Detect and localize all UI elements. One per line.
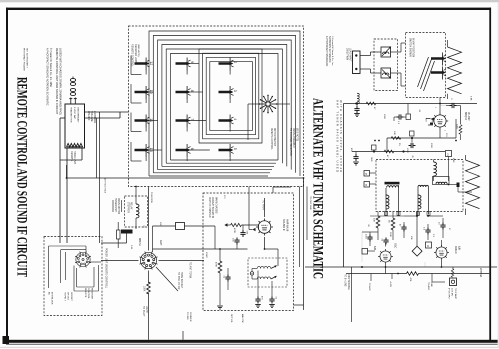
svg-text:AC: AC [48, 292, 51, 295]
antenna switch dashed box [406, 33, 446, 98]
svg-text:© Howard W. Sams & Co., Inc.: © Howard W. Sams & Co., Inc. [331, 36, 334, 66]
svg-text:LEAD INPUT: LEAD INPUT [349, 48, 352, 62]
relay coil [136, 196, 139, 229]
capacitor C7 [381, 238, 389, 245]
svg-text:STEPPER: STEPPER [127, 202, 129, 213]
wire stubs below rail2 [371, 262, 425, 281]
svg-text:(SEE NOTE): (SEE NOTE) [137, 44, 139, 57]
wire antenna to balun [360, 52, 381, 73]
svg-text:6: 6 [190, 148, 194, 150]
page top gray scan edge [0, 0, 499, 2]
svg-text:VOLUME: VOLUME [90, 111, 93, 122]
wire IF input line [153, 237, 279, 249]
svg-text:47K: 47K [159, 222, 161, 226]
svg-text:TO PILOT: TO PILOT [142, 306, 144, 317]
label V3 type [464, 112, 470, 121]
border frame right line [489, 8, 491, 342]
wire transmitter bottom leads [60, 148, 82, 243]
svg-text:2.2K: 2.2K [130, 245, 132, 250]
resistor R6 vertical [388, 212, 395, 241]
pin circle 7 [250, 272, 253, 275]
svg-text:8: 8 [190, 90, 194, 92]
ground G1 [217, 306, 223, 309]
svg-text:SET VOL: SET VOL [230, 314, 232, 324]
remote receiver dashed enclosure [129, 26, 304, 187]
svg-text:6J6: 6J6 [373, 246, 376, 251]
svg-text:ON-OFF: ON-OFF [87, 111, 90, 121]
svg-text:3: 3 [233, 90, 237, 92]
svg-text:REMOTE: REMOTE [84, 288, 86, 298]
tuning coil L12 [135, 58, 154, 75]
transducer leads [69, 98, 77, 105]
svg-text:7: 7 [190, 118, 194, 120]
label transmitter unit [70, 151, 76, 165]
svg-text:REMOTE CONTROL AND SOUND IF CI: REMOTE CONTROL AND SOUND IF CIRCUIT [13, 77, 29, 277]
capacitor C18 plate [446, 98, 461, 108]
label V3 pins [434, 107, 445, 132]
RF coil L6 winding [418, 195, 421, 209]
svg-text:SOCKET: SOCKET [70, 292, 72, 302]
wire socket connections [49, 246, 102, 291]
svg-text:23.5 MC: 23.5 MC [451, 288, 453, 297]
mixer zigzag coil L10 [466, 155, 480, 215]
label V1 [138, 238, 162, 246]
resistor R21 [224, 223, 258, 233]
label inside transmitter [70, 107, 80, 123]
power unit dashed enclosure [44, 237, 102, 316]
wire nested loops bottom returns [149, 160, 278, 176]
svg-text:10: 10 [149, 90, 153, 94]
svg-text:WITH CHASSIS 20YP4, 20YP4A: WITH CHASSIS 20YP4, 20YP4A [339, 100, 343, 172]
svg-text:CONTROL: CONTROL [87, 288, 89, 299]
svg-text:5%: 5% [398, 143, 400, 146]
capacitor C10 [438, 218, 446, 238]
wire transformer leads [252, 249, 278, 298]
motor fuse F1 [117, 222, 121, 248]
subtitle REMOTE CONTROL UNIT note [55, 48, 63, 115]
title REMOTE CONTROL AND SOUND IF CIRCUIT [13, 77, 29, 277]
crystal diode X1 [412, 246, 422, 256]
wire inner loops (col2-col3) [199, 49, 262, 143]
label receiver unit [131, 44, 140, 67]
border frame top line [6, 8, 491, 10]
label stubs below rail [368, 281, 391, 291]
wire relay riser [101, 187, 136, 244]
svg-text:300Ω TWIN: 300Ω TWIN [346, 48, 348, 60]
svg-text:REMOTE CONTROL: REMOTE CONTROL [270, 128, 272, 150]
svg-text:5: 5 [233, 148, 237, 150]
label switch shown in VHF position [409, 38, 414, 57]
ground G2 [255, 305, 261, 308]
resistor R7 bottom [407, 272, 433, 282]
resistor R3 AGC row [387, 131, 456, 139]
svg-text:IF OUTPUT: IF OUTPUT [448, 288, 450, 300]
label 6.8K [470, 96, 472, 101]
wire balun outputs [391, 43, 406, 86]
svg-text:TUBE SOCKET: TUBE SOCKET [180, 272, 182, 289]
svg-text:MOTOR SWITCH: MOTOR SWITCH [273, 128, 275, 147]
tuning coil L5 [219, 144, 238, 161]
RF coil L5 winding [386, 195, 389, 209]
label chassis note [479, 268, 482, 278]
svg-text:1000: 1000 [365, 234, 367, 240]
label ON OFF VOLUME CONTROL [87, 111, 96, 124]
capacitor C33 [255, 296, 262, 304]
wire IF right rail [294, 178, 308, 310]
svg-text:AMP 6AU6: AMP 6AU6 [286, 219, 289, 232]
folder number note [23, 48, 28, 71]
label part of printed board [208, 197, 217, 218]
label remote control recvr [84, 288, 92, 300]
wire stub to border [182, 331, 184, 340]
svg-text:12: 12 [149, 61, 153, 65]
svg-text:HAND UNIT: HAND UNIT [73, 151, 76, 165]
svg-text:TO AGC: TO AGC [427, 282, 430, 291]
svg-text:RECEIVER: RECEIVER [90, 288, 92, 300]
tube V1 6BK7A [139, 251, 157, 269]
svg-text:PART OF PRINTED: PART OF PRINTED [208, 197, 211, 218]
wire long horizontal bus [67, 165, 304, 178]
svg-text:4.5MC: 4.5MC [205, 252, 207, 258]
svg-text:2: 2 [233, 61, 237, 63]
svg-text:10K: 10K [373, 218, 375, 222]
antenna terminal board [353, 51, 361, 74]
tuning coil L4 [219, 115, 238, 132]
svg-text:GND: GND [370, 157, 372, 162]
title ALTERNATE VHF TUNER SCHEMATIC [310, 98, 326, 279]
svg-text:SOUND IF: SOUND IF [282, 219, 285, 231]
svg-text:DRIVE ASSEMBLY: DRIVE ASSEMBLY [292, 128, 295, 148]
relay armature contact (solid) [121, 230, 133, 234]
capacitor C30 [240, 225, 247, 237]
label switch function [270, 128, 275, 150]
capacitor C9 [423, 224, 431, 240]
svg-text:© Howard W. Sams & Co., Inc. 1: © Howard W. Sams & Co., Inc. 1956 [49, 48, 52, 87]
choke coil above rail [357, 93, 359, 104]
wire tube drops [386, 240, 442, 274]
border frame bottom line [3, 336, 499, 345]
label receptacle [64, 292, 72, 302]
tuning coil L3 [219, 86, 238, 103]
oscillator coil L7 vertical [434, 160, 437, 182]
svg-text:REMOTE CONTROL UNIT AND SOUND: REMOTE CONTROL UNIT AND SOUND IF CIRCUIT [55, 48, 59, 115]
IF output terminal box [450, 269, 457, 286]
tube V5 6J6 mixer [434, 245, 449, 260]
wire V1 grid line [101, 260, 204, 262]
svg-text:470K: 470K [215, 262, 217, 268]
label to pin 4 [262, 200, 264, 210]
svg-text:A PHOTOFACT STANDARD: A PHOTOFACT STANDARD [325, 36, 328, 67]
label osc line right [309, 196, 311, 210]
resistor R5 vertical [373, 212, 380, 241]
svg-text:13: 13 [149, 148, 153, 152]
svg-text:6BK7A: 6BK7A [138, 238, 141, 246]
tuning coil L7 [176, 115, 195, 132]
wire misc bottom [352, 267, 454, 322]
svg-text:TO 2ND: TO 2ND [186, 312, 188, 320]
svg-text:MAIN CHASSIS: MAIN CHASSIS [214, 197, 217, 214]
svg-text:DRIVE MOTOR: DRIVE MOTOR [117, 198, 119, 215]
wire nested loops top [149, 31, 300, 176]
wire AGC row riser [387, 119, 456, 152]
svg-text:OF 6X4: OF 6X4 [67, 292, 69, 300]
svg-text:TO AGC: TO AGC [368, 283, 371, 291]
svg-text:+140V: +140V [389, 281, 391, 288]
label AGC [427, 282, 432, 291]
wire transmitter left rail [60, 118, 65, 243]
terminal box 5 [364, 171, 376, 177]
capacitor C34 [269, 296, 276, 304]
terminal box 6 [364, 182, 376, 188]
svg-text:TO IF AMP: TO IF AMP [454, 288, 457, 299]
sound IF dashed enclosure [203, 193, 294, 311]
tuning coil L9 [176, 58, 195, 75]
svg-text:TO PIN 4: TO PIN 4 [262, 200, 264, 210]
svg-text:TO PIN 1 OF CR: TO PIN 1 OF CR [177, 272, 179, 290]
capacitor C32 [223, 268, 231, 290]
wire V2 grid input [249, 225, 260, 231]
svg-text:6.8K: 6.8K [470, 96, 472, 101]
wire IF riser to receiver [249, 187, 291, 230]
svg-text:140V SOURCE: 140V SOURCE [347, 274, 349, 290]
label values scatter tuner [367, 109, 454, 240]
label power unit [105, 248, 108, 288]
svg-text:TO CHANNEL SELECTOR: TO CHANNEL SELECTOR [289, 128, 292, 156]
terminal pins at coil box bottom [385, 212, 431, 216]
capacitor C2 coupling [394, 114, 411, 125]
svg-text:RECEIVER UNIT: RECEIVER UNIT [134, 44, 137, 63]
label switch wafer [289, 128, 297, 156]
IF transformer primary coil [252, 265, 277, 268]
svg-text:(SEE NOTE): (SEE NOTE) [295, 128, 297, 141]
resistor R1 in antenna line [366, 102, 376, 110]
svg-text:RF AMP: RF AMP [467, 112, 470, 121]
svg-text:TRANSMITTER: TRANSMITTER [70, 107, 73, 123]
terminal box 2 [446, 151, 452, 182]
svg-text:INTERLOCK: INTERLOCK [51, 292, 53, 305]
ground G3 [269, 305, 275, 308]
svg-text:LINE: LINE [430, 282, 432, 287]
tuning coil L11 [135, 115, 154, 132]
balun coil B [381, 68, 391, 79]
label B+ line [344, 274, 350, 290]
svg-text:20YP4A: 20YP4A [479, 268, 482, 278]
svg-text:11: 11 [149, 118, 153, 122]
label to pin connections [177, 272, 182, 290]
RF coil dashed enclosure [376, 160, 463, 212]
IF transformer secondary coil [252, 276, 277, 279]
label to ant terminal [189, 262, 192, 279]
svg-text:MAX CW: MAX CW [241, 314, 244, 323]
svg-text:OSC: OSC [394, 243, 397, 248]
svg-text:TO OSC LINE: TO OSC LINE [309, 196, 311, 210]
svg-text:LIGHT: LIGHT [145, 306, 147, 313]
wire transmitter to receiver top [85, 112, 129, 118]
svg-text:RELAY: RELAY [130, 202, 133, 210]
wire tuner left rail [344, 102, 478, 267]
transducer T1 (ultrasonic) [70, 77, 75, 86]
svg-text:(USED WITH CHASSIS 20WR9, 20WR: (USED WITH CHASSIS 20WR9, 20WR9A AND PRO… [59, 48, 63, 115]
wire osc bus [362, 212, 443, 263]
svg-text:SET 319 FOLDER 7: SET 319 FOLDER 7 [26, 48, 28, 69]
RF coil L5 legs [386, 185, 399, 216]
label below V1 [142, 306, 147, 317]
right edge scan gray [498, 2, 499, 347]
credit line A PHOTOFACT STANDARD NOTATION SCHEMATIC [46, 48, 53, 106]
wire C2 riser [394, 104, 408, 122]
page bottom gray scan edge [0, 347, 499, 348]
terminal box at left [362, 249, 375, 255]
svg-text:100K: 100K [143, 286, 145, 292]
volume control coil L1 (hatched) [67, 143, 83, 146]
credit line PHOTOFACT for tuner [325, 36, 334, 67]
label V2 sound IF [282, 219, 289, 232]
svg-text:SOUND IF: SOUND IF [189, 312, 191, 323]
relay dashed box K1 [125, 196, 148, 227]
svg-text:POWER UNIT (REMOTE CONTROL): POWER UNIT (REMOTE CONTROL) [105, 248, 108, 288]
label values scatter remote [104, 178, 226, 258]
capacitor C6 [365, 232, 373, 246]
tuning coil L2 [219, 58, 238, 75]
svg-text:TO MOTOR: TO MOTOR [150, 192, 152, 203]
resistor R9 value [143, 286, 145, 292]
rotary channel switch SW1 [259, 95, 278, 114]
svg-text:ALTERNATE VHF TUNER SCHEMATIC: ALTERNATE VHF TUNER SCHEMATIC [310, 98, 326, 279]
terminal box C [426, 242, 432, 248]
wire switch feeders [248, 104, 290, 140]
sound IF transformer dashed box [248, 258, 287, 287]
svg-text:3300: 3300 [456, 124, 458, 130]
svg-text:A PHOTOFACT STANDARD NOTATION: A PHOTOFACT STANDARD NOTATION SCHEMATIC [46, 48, 49, 106]
tube V2 6AU6 sound IF amp [256, 219, 273, 236]
resistor R2 vertical [456, 124, 462, 140]
capacitor C1 bypass [354, 104, 360, 117]
tuning coil L10 [135, 86, 154, 103]
svg-text:CIRCUIT BOARD IN: CIRCUIT BOARD IN [211, 197, 214, 218]
resistor R22 vertical [215, 249, 222, 305]
svg-text:117V 60 CYCLE: 117V 60 CYCLE [104, 178, 106, 194]
tuning coil L6 [176, 144, 195, 161]
antenna coil L3 (hatched) [431, 67, 446, 80]
tube V3 6BQ7A RF amp [432, 113, 448, 129]
antenna coil L2 (hatched) [431, 53, 446, 66]
resistor R4 cathode row [352, 145, 445, 158]
capacitor C31 [232, 238, 240, 250]
subtitle VHF TUNER note [336, 100, 344, 172]
crystal filter box [176, 223, 185, 230]
junction dots tuner extra [355, 103, 449, 217]
label V4 [373, 243, 397, 251]
RF coil L6 legs [418, 187, 428, 216]
svg-text:CONTROL: CONTROL [93, 111, 96, 124]
svg-text:6J6: 6J6 [457, 246, 460, 251]
svg-text:PHOTOFACT FOLDER: PHOTOFACT FOLDER [23, 48, 26, 71]
svg-text:AMP: AMP [159, 240, 162, 246]
svg-text:SWITCH SHOWN: SWITCH SHOWN [409, 38, 411, 57]
capacitor C8 [399, 222, 407, 238]
wire coil row stubs [148, 64, 210, 151]
balun coil A [381, 46, 391, 57]
balun dashed box [374, 39, 398, 91]
svg-text:47K: 47K [409, 278, 411, 282]
tuning coil L13 [135, 144, 154, 161]
wire V1 output diagonal [156, 267, 178, 291]
svg-text:FINE: FINE [452, 158, 454, 163]
svg-text:MIXER: MIXER [454, 246, 457, 254]
wire V1 cathode chain [147, 271, 151, 340]
RF coil L6 winding top [418, 185, 428, 187]
oscillator coil L8 with shield [433, 177, 473, 193]
svg-text:TO B+ LINE: TO B+ LINE [344, 274, 346, 287]
svg-text:10K: 10K [410, 236, 412, 240]
svg-text:VHF TUNER 94009 (A&B) USED: VHF TUNER 94009 (A&B) USED [336, 100, 340, 172]
svg-text:10K: 10K [393, 131, 395, 135]
svg-text:USE EVEREADY: USE EVEREADY [77, 107, 80, 123]
svg-text:TUNER UNIT: TUNER UNIT [114, 198, 116, 213]
capacitor C4 hanging [406, 138, 416, 154]
svg-text:NOTATION SCHEMATIC: NOTATION SCHEMATIC [328, 36, 331, 63]
svg-text:4: 4 [233, 118, 237, 120]
wire V1 plate riser [149, 187, 216, 253]
switch wiper diagonals [418, 57, 435, 91]
svg-text:TO PIN 7: TO PIN 7 [64, 292, 66, 302]
tube socket V6 6X4 (bottom view) [75, 252, 91, 268]
svg-text:220K: 220K [389, 232, 391, 237]
label tuner drive motor [113, 198, 122, 215]
svg-text:IN VHF POSITION: IN VHF POSITION [412, 38, 414, 57]
svg-text:9: 9 [190, 61, 194, 63]
transducer T2 (ultrasonic) [70, 88, 75, 95]
border frame left line [6, 8, 8, 342]
remote transmitter case [65, 104, 85, 148]
svg-text:1000: 1000 [406, 148, 408, 154]
wire coil column 1 stubs [131, 56, 142, 162]
tube V4 6J6 oscillator [378, 249, 393, 264]
V3 grid clutter [426, 118, 434, 126]
tuning coil L8 [176, 86, 195, 103]
svg-text:TO ANT. TERM.: TO ANT. TERM. [189, 262, 192, 279]
wire V3 leads [440, 98, 461, 139]
label 300 ohm twin lead [346, 48, 352, 62]
label V5 [454, 246, 460, 254]
label IF output [448, 288, 458, 300]
RF interstage zigzag coil L4 [448, 40, 462, 99]
wire transmitter risers [97, 112, 100, 243]
label relay [127, 202, 133, 213]
svg-text:470K: 470K [233, 228, 235, 234]
RF coil assembly L5 core [385, 182, 400, 188]
capacitor C5 hanging [350, 148, 359, 165]
svg-text:6BQ7A: 6BQ7A [464, 112, 467, 120]
wire V2 plate lead [264, 198, 266, 217]
label bottom notes [186, 312, 244, 324]
wire bottom rails [305, 266, 497, 274]
svg-text:9 VOLT BAT.: 9 VOLT BAT. [73, 107, 76, 120]
label 6X4 rectifier [48, 292, 53, 305]
